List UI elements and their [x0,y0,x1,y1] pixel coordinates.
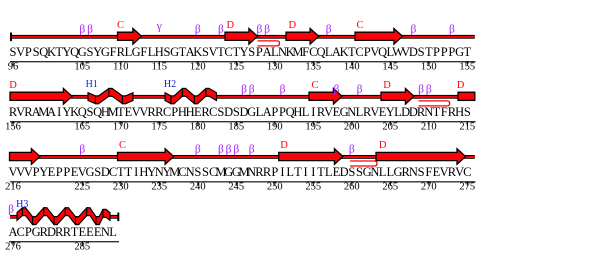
svg-text:β: β [326,24,332,36]
beta-turn 123 (row 1) [218,24,224,36]
sequence letters row 1 (SVPSQKTY... 96-155) [10,45,472,59]
svg-text:T: T [294,165,302,179]
svg-text:I: I [57,105,61,119]
svg-text:210: 210 [421,122,437,133]
svg-text:205: 205 [382,122,398,133]
svg-text:125: 125 [228,62,244,73]
svg-text:T: T [433,105,441,119]
sheet label D (row 3, strand 264) [379,140,387,151]
svg-text:H: H [455,105,464,119]
svg-text:I: I [311,105,315,119]
svg-text:165: 165 [74,122,90,133]
sheet label D (row 1, strand 132) [289,20,297,31]
svg-text:255: 255 [305,182,321,193]
helix label H2 (row 2) [164,79,176,90]
svg-text:H: H [155,45,164,59]
svg-text:260: 260 [344,182,360,193]
row 4 main-chain wire segment a (276-277) [10,215,19,219]
beta-turn 198 (row 2) [333,84,339,96]
svg-text:240: 240 [190,182,206,193]
beta-turn 148 (row 1) [410,24,416,36]
svg-text:I: I [304,165,308,179]
beta-turn 209 (row 2) [418,84,424,96]
residue ruler row 3 (216-275) [5,181,475,192]
residue ruler row 4 (276-289) [5,241,119,252]
svg-text:F: F [110,45,117,59]
beta-turn 186 (row 2) [241,84,247,96]
svg-text:185: 185 [228,122,244,133]
svg-text:190: 190 [267,122,283,133]
beta-strand D start (214-215, continues), row 2 [458,92,475,100]
beta-turn 244 (row 3) [226,144,232,156]
svg-text:E: E [48,165,56,179]
svg-text:110: 110 [113,62,128,73]
sheet label C (row 3, strand 230) [119,140,126,151]
svg-text:β: β [218,144,224,156]
svg-text:S: S [202,165,209,179]
svg-text:G: G [85,165,94,179]
svg-text:245: 245 [228,182,244,193]
svg-text:276: 276 [5,242,21,253]
svg-text:P: P [25,45,32,59]
svg-text:C: C [355,45,363,59]
svg-text:D: D [379,140,387,151]
beta-turn 129 (row 1) [264,24,270,36]
svg-text:β: β [418,84,424,96]
svg-text:150: 150 [421,62,437,73]
beta-turn 187 (row 2) [249,84,255,96]
beta-turn 120 (row 1) [195,24,201,36]
beta-turn 191 (row 2) [280,84,286,96]
sequence letters row 4 (ACPGRDRRTEEENL 276-289) [8,225,116,239]
svg-text:285: 285 [74,242,90,253]
sheet label D (row 3, strand 251) [280,140,288,151]
svg-text:β: β [249,84,255,96]
residue ruler row 2 (156-215) [5,121,475,132]
svg-text:β: β [226,144,232,156]
beta-strand D (204-207), row 2 [381,89,414,105]
sequence letters row 2 (RVRAMAIY... 156-215) [9,105,471,119]
beta-strand C (195-198), row 2 [309,89,342,105]
helix H3 (278-286), row 4 [17,208,110,225]
C-terminus cap bar (residue 289) [117,213,119,222]
svg-text:96: 96 [8,62,19,73]
svg-text:270: 270 [421,182,437,193]
svg-text:195: 195 [305,122,321,133]
beta-turn 153 (row 1) [449,24,455,36]
svg-text:P: P [63,165,70,179]
svg-text:β: β [249,144,255,156]
sheet label D (row 1, strand 124) [227,20,235,31]
svg-text:G: G [78,45,87,59]
svg-text:P: P [441,45,448,59]
residue ruler row 1 (96-155) [8,61,476,72]
svg-text:P: P [271,105,278,119]
svg-text:N: N [409,165,418,179]
sheet label D (row 2, strand 204) [383,80,391,91]
svg-text:I: I [280,165,284,179]
helix H2 (177-181), row 2 [165,88,217,103]
svg-text:250: 250 [267,182,283,193]
svg-text:H3: H3 [16,199,28,210]
svg-text:235: 235 [151,182,167,193]
svg-text:β: β [426,84,432,96]
svg-text:β: β [195,144,201,156]
svg-text:Q: Q [78,105,87,119]
beta-turn 128 (row 1) [256,24,262,36]
row 2 main-chain wire segment a (156-165) [10,95,89,99]
svg-text:Y: Y [239,45,248,59]
svg-text:β: β [280,84,286,96]
svg-text:L: L [286,165,294,179]
svg-text:β: β [87,24,93,36]
svg-text:275: 275 [459,182,475,193]
beta-strand D (124-127), row 1 [225,29,258,45]
svg-text:D: D [9,80,17,91]
beta-strand D (156-163), row 2 [10,89,72,105]
sheet label C (row 1, strand 110) [117,20,124,31]
helix H1 (166-170), row 2 [88,88,133,103]
svg-text:D: D [289,20,297,31]
svg-text:P: P [271,165,278,179]
svg-text:A: A [263,105,272,119]
beta-strand D (251-257), row 3 [279,149,343,165]
beta-strand D continuation (216-218), row 3 [10,149,41,165]
beta-strand D (132-135), row 1 [286,29,319,45]
svg-text:180: 180 [190,122,206,133]
svg-text:β: β [357,84,363,96]
beta-turn 276 (row 4) [8,204,14,216]
svg-text:120: 120 [190,62,206,73]
beta-turn 225 (row 3) [79,144,85,156]
svg-text:β: β [333,84,339,96]
sheet label D (row 2, strand 214) [457,80,465,91]
svg-text:β: β [410,24,416,36]
row 4 main-chain wire segment b (287-289) [109,215,119,219]
helix label H1 (row 2) [86,79,98,90]
beta-turn 247 (row 3) [249,144,255,156]
svg-text:β: β [349,144,355,156]
svg-text:115: 115 [152,62,167,73]
svg-text:C: C [119,140,126,151]
svg-text:β: β [233,144,239,156]
sheet label D (row 2, strand 156) [9,80,17,91]
svg-text:156: 156 [5,122,21,133]
svg-text:D: D [383,80,391,91]
svg-text:G: G [101,45,110,59]
svg-text:β: β [449,24,455,36]
svg-text:β: β [79,144,85,156]
svg-text:β: β [241,84,247,96]
svg-text:D: D [224,105,233,119]
svg-text:230: 230 [113,182,129,193]
beta-turn 240 (row 3) [195,144,201,156]
sheet label C (row 2, strand 195) [311,80,318,91]
svg-text:T: T [125,165,133,179]
svg-text:S: S [348,165,355,179]
svg-text:C: C [356,20,363,31]
svg-text:G: G [132,45,141,59]
svg-text:215: 215 [459,122,475,133]
beta-turn 210 (row 2) [426,84,432,96]
svg-text:P: P [56,165,63,179]
svg-text:I: I [311,165,315,179]
svg-text:D: D [227,20,235,31]
svg-text:D: D [457,80,465,91]
beta-turn 137 (row 1) [326,24,332,36]
row 1 main-chain wire (residues 96-155) [10,35,475,39]
svg-text:A: A [47,105,56,119]
svg-text:γ: γ [156,21,162,33]
svg-text:140: 140 [344,62,360,73]
beta-strand C (230-236), row 3 [118,149,174,165]
svg-text:T: T [425,45,433,59]
svg-text:β: β [264,24,270,36]
svg-text:K: K [193,45,202,59]
beta-strand C (110-112), row 1 [118,29,142,45]
svg-text:F: F [441,105,448,119]
beta-hairpin loop (strands D, row 2) [419,101,450,106]
svg-text:C: C [209,105,217,119]
row 2 main-chain wire segment b (171-177) [132,95,166,99]
svg-text:C: C [463,165,471,179]
svg-text:P: P [433,45,440,59]
svg-text:H2: H2 [164,79,176,90]
helix label H3 (row 4) [16,199,28,210]
svg-text:V: V [24,165,33,179]
svg-text:135: 135 [305,62,321,73]
svg-text:C: C [17,225,25,239]
svg-text:265: 265 [382,182,398,193]
svg-text:L: L [379,165,387,179]
beta-hairpin loop (strands D, row 1) [258,41,280,46]
svg-text:175: 175 [151,122,167,133]
svg-text:F: F [302,45,309,59]
svg-text:β: β [79,24,85,36]
svg-text:C: C [117,20,124,31]
svg-text:200: 200 [344,122,360,133]
svg-text:L: L [109,225,117,239]
svg-text:D: D [340,165,349,179]
row 2 main-chain wire segment c (182-215) [216,95,475,99]
sequence letters row 3 (VVVPYEPP... 216-275) [8,165,471,179]
svg-text:V: V [16,45,25,59]
svg-text:S: S [464,105,471,119]
svg-text:C: C [163,105,171,119]
svg-text:225: 225 [74,182,90,193]
svg-text:L: L [325,165,333,179]
svg-text:105: 105 [74,62,90,73]
svg-text:155: 155 [459,62,475,73]
svg-text:L: L [302,105,310,119]
svg-text:β: β [8,204,14,216]
svg-text:S: S [248,45,255,59]
svg-text:S: S [418,45,425,59]
svg-text:F: F [425,165,432,179]
beta-turn 260 (row 3) [349,144,355,156]
beta-turn 201 (row 2) [357,84,363,96]
svg-text:S: S [418,165,425,179]
svg-text:I: I [134,165,138,179]
svg-text:170: 170 [113,122,129,133]
beta-strand C (141-146), row 1 [355,29,403,45]
svg-text:216: 216 [5,182,21,193]
svg-text:β: β [195,24,201,36]
svg-text:H1: H1 [86,79,98,90]
svg-text:F: F [140,45,147,59]
gamma-turn 115 (row 1) [156,21,162,33]
beta-turn 106 (row 1) [87,24,93,36]
svg-text:130: 130 [267,62,283,73]
svg-text:C: C [311,80,318,91]
beta-hairpin loop (strands D, row 3) [350,161,377,166]
beta-turn 105 (row 1) [79,24,85,36]
svg-text:β: β [218,24,224,36]
N-terminus cap bar (residue 96) [10,33,12,42]
sheet label C (row 1, strand 141) [356,20,363,31]
row 3 main-chain wire (residues 216-275) [10,155,475,159]
svg-text:145: 145 [382,62,398,73]
beta-turn 245 (row 3) [233,144,239,156]
svg-text:D: D [280,140,288,151]
svg-text:β: β [256,24,262,36]
beta-strand D (264-274), row 3 [376,149,466,165]
svg-text:T: T [463,45,471,59]
beta-turn 243 (row 3) [218,144,224,156]
svg-text:N: N [186,165,195,179]
svg-text:D: D [409,45,418,59]
svg-text:S: S [194,165,201,179]
